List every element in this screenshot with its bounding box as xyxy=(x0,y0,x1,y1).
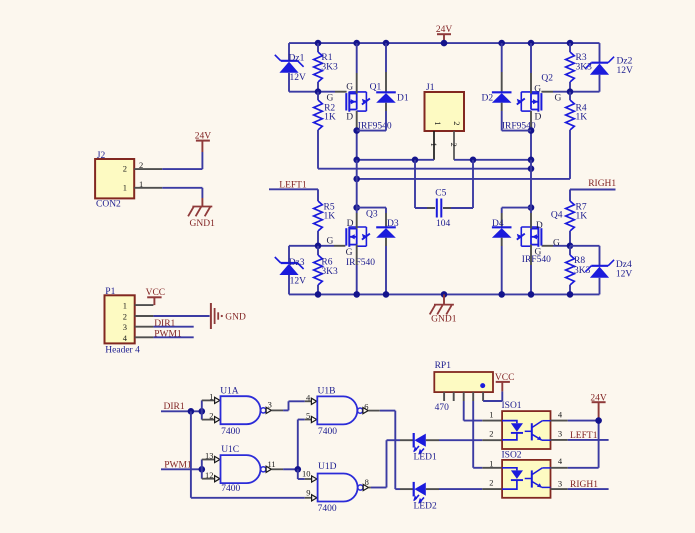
pin C5 right xyxy=(443,207,451,209)
svg-text:1K: 1K xyxy=(576,112,588,122)
svg-text:RP1: RP1 xyxy=(435,361,452,371)
label CON2 xyxy=(96,200,121,210)
wire R8 top xyxy=(569,246,571,255)
pin LED2 cathode xyxy=(400,488,414,490)
svg-text:D: D xyxy=(347,219,354,229)
label U1A xyxy=(220,387,239,397)
pin number ISO1-2 xyxy=(489,429,493,439)
wire +24V top rail xyxy=(289,42,600,44)
diode D3 xyxy=(376,227,396,237)
pin number U1A-1 xyxy=(209,391,213,401)
label R4 1K xyxy=(576,112,588,122)
svg-text:4: 4 xyxy=(558,409,563,419)
label Q2 G pin xyxy=(534,84,541,94)
pin Q3 drain xyxy=(356,213,358,229)
wire LED1 row left xyxy=(387,439,401,441)
pin number U1D-8 xyxy=(365,477,369,487)
pin P1-2 xyxy=(135,315,154,317)
label R2 1K xyxy=(324,112,336,122)
svg-text:1: 1 xyxy=(123,301,127,311)
svg-text:ISO2: ISO2 xyxy=(502,451,522,461)
label Q2 D pin xyxy=(535,112,542,122)
wire R2 top xyxy=(317,92,319,100)
wire C5 left drop xyxy=(415,160,435,208)
pin J2-1 xyxy=(134,187,162,189)
wire Dz1 bottom xyxy=(288,73,290,92)
pin Q2 source xyxy=(530,73,532,94)
label Q1 G net xyxy=(327,93,334,103)
svg-text:LED2: LED2 xyxy=(414,501,437,511)
wire D4 anode xyxy=(501,246,503,294)
resistor R2 xyxy=(314,100,323,130)
pin number U1B-5 xyxy=(306,410,310,420)
junction dot U1C inputs xyxy=(199,466,206,473)
svg-text:Q2: Q2 xyxy=(541,73,553,83)
power 24V (J2) xyxy=(195,132,212,153)
pin U1B-4 xyxy=(305,398,317,404)
junction dot row C left xyxy=(353,176,360,183)
wire R2 bottom to row B xyxy=(317,130,319,169)
pin RP1-3 xyxy=(463,392,465,401)
net label RIGH1 (bridge) xyxy=(588,179,616,189)
wire U1C out to U1B-5 xyxy=(298,420,305,470)
junction dot Q3 gate node xyxy=(315,243,322,250)
wire Dz1 top xyxy=(288,43,290,61)
wire U1C out node xyxy=(283,468,298,470)
svg-text:470: 470 xyxy=(435,403,450,413)
svg-text:5: 5 xyxy=(306,410,310,420)
label D2 xyxy=(482,93,494,103)
wire row A right (J1-2 to RIGHT node) xyxy=(454,159,531,161)
wire D2 top xyxy=(501,43,503,72)
svg-text:CON2: CON2 xyxy=(96,200,121,210)
junction dots row A xyxy=(353,157,534,164)
svg-text:Q1: Q1 xyxy=(370,82,382,92)
label D1 xyxy=(397,93,409,103)
pin D2 anode xyxy=(501,103,503,111)
pin D1 cathode xyxy=(385,72,387,92)
svg-text:3K3: 3K3 xyxy=(574,266,591,276)
power VCC (P1) xyxy=(146,288,166,305)
iso2 led xyxy=(502,468,523,489)
pin C5 left xyxy=(427,207,435,209)
label R6 3K3 xyxy=(321,267,338,277)
pin number ISO2-3 xyxy=(558,479,562,489)
pin J1-2 xyxy=(453,131,455,160)
junction dot Q4-D4 xyxy=(528,204,535,211)
pin U1C-12 xyxy=(202,476,220,482)
connector J2 box xyxy=(95,159,134,198)
zener Dz3 xyxy=(275,257,304,275)
wire R7 bottom xyxy=(569,231,571,246)
wire U1A input branch xyxy=(201,400,203,419)
iso2 transistor xyxy=(525,468,551,488)
svg-text:P1: P1 xyxy=(105,287,115,297)
wire C5 right drop xyxy=(443,160,473,208)
nand gate U1A xyxy=(221,396,266,424)
pin U1C-13 xyxy=(202,456,220,462)
svg-text:ISO1: ISO1 xyxy=(502,401,522,411)
zener Dz4 xyxy=(570,246,614,278)
label U1A 7400 xyxy=(221,427,240,437)
svg-text:GND1: GND1 xyxy=(431,315,457,325)
wire ISO2-3 RIGH1 xyxy=(568,488,609,490)
diode D1 xyxy=(376,92,396,102)
svg-text:12V: 12V xyxy=(290,73,307,83)
svg-text:J1: J1 xyxy=(426,83,435,93)
label Q2 G net xyxy=(555,93,562,103)
wire LED2 to ISO2-2 xyxy=(439,488,482,490)
pin ISO2-1 xyxy=(482,467,502,469)
wire Dz2 top xyxy=(599,43,601,63)
label U1D 7400 xyxy=(318,504,337,514)
pin J2-2 xyxy=(134,168,162,170)
pin U1D-9 xyxy=(305,495,317,501)
svg-text:3K3: 3K3 xyxy=(321,267,338,277)
pin number J1-2 outside xyxy=(449,143,459,147)
svg-text:9: 9 xyxy=(306,487,310,497)
svg-text:D1: D1 xyxy=(397,93,409,103)
wire LED1 to ISO1-2 xyxy=(439,439,482,441)
label R6 xyxy=(321,258,332,268)
junction dot U1A inputs xyxy=(199,408,206,415)
wire RP1-4 to ISO2-1 xyxy=(473,401,482,468)
wire R1 top xyxy=(317,43,319,52)
svg-text:2: 2 xyxy=(123,164,127,174)
net label RIGH1 (ISO2) xyxy=(570,480,598,490)
net label PWM1 (gates) xyxy=(164,460,192,470)
wire ISO2-4 to 24V xyxy=(568,421,599,468)
label R3 3K3 xyxy=(576,62,593,72)
wire DIR1 to U1D-9 xyxy=(191,411,305,498)
wire Q3 source bottom xyxy=(356,265,358,294)
wire P1-3 DIR1 xyxy=(153,326,193,328)
label R7 1K xyxy=(576,212,588,222)
svg-text:IRF540: IRF540 xyxy=(522,255,551,265)
wire Q1 gate node row xyxy=(289,91,347,93)
label RP1 470 xyxy=(435,403,450,413)
svg-text:G: G xyxy=(553,238,560,248)
junction dot Q3-D3 xyxy=(353,204,360,211)
zener Dz1 xyxy=(275,55,304,73)
svg-text:U1C: U1C xyxy=(221,445,239,455)
svg-text:3: 3 xyxy=(558,429,562,439)
wire row C (R4 to LEFT node) xyxy=(357,178,570,180)
pin number ISO2-4 xyxy=(558,456,563,466)
wire Q1 source top xyxy=(356,43,358,73)
label D3 xyxy=(387,219,399,229)
pin ISO1-2 xyxy=(482,439,502,441)
svg-text:1K: 1K xyxy=(576,212,588,222)
svg-text:J2: J2 xyxy=(97,151,106,161)
label P1 xyxy=(105,287,115,297)
pin number P1-4 xyxy=(123,333,128,343)
pin U1D-8 out xyxy=(363,484,371,490)
wire U1C input branch xyxy=(201,460,203,479)
svg-text:D2: D2 xyxy=(482,93,494,103)
resistor R5 xyxy=(314,201,323,231)
diode D4 xyxy=(492,227,512,237)
pin number J2-2 inside xyxy=(123,164,127,174)
label ISO2 xyxy=(502,451,522,461)
svg-text:U1D: U1D xyxy=(318,462,337,472)
pin number ISO1-4 xyxy=(558,409,563,419)
svg-text:1: 1 xyxy=(139,179,143,189)
label Q4 G pin xyxy=(535,248,542,258)
wire RP1-3 to ISO1-1 xyxy=(464,401,483,421)
label Dz4 12V xyxy=(616,269,633,279)
wire R6 top xyxy=(317,246,319,255)
wire LED2 row left xyxy=(395,488,400,490)
wire RIGH1 xyxy=(570,190,616,202)
wire Dz4 top xyxy=(599,246,601,266)
pin ISO2-2 xyxy=(482,488,502,490)
label R1 xyxy=(321,53,332,63)
pin ISO2-3 xyxy=(551,488,568,490)
wire Q1 drain down xyxy=(356,128,358,160)
svg-text:G: G xyxy=(327,93,334,103)
wire Dz4 bottom xyxy=(599,278,601,295)
wire J2-1 to GND1 xyxy=(162,188,202,198)
label C5 xyxy=(435,188,446,198)
svg-text:D3: D3 xyxy=(387,219,399,229)
label Dz1 xyxy=(289,54,305,64)
label C5 104 xyxy=(436,219,451,229)
pin P1-1 xyxy=(135,304,154,306)
wire PWM1 xyxy=(161,468,202,470)
resistor R6 xyxy=(314,255,323,285)
svg-text:2: 2 xyxy=(449,143,459,147)
svg-text:12V: 12V xyxy=(616,269,633,279)
pin RP1-2 xyxy=(453,392,455,401)
ground GND1 (bridge) xyxy=(430,294,457,324)
wire R5 bottom xyxy=(317,231,319,246)
pin U1D-10 xyxy=(305,476,317,482)
label LED1 xyxy=(414,453,437,463)
pin number U1D-9 xyxy=(306,487,310,497)
label Q2 IRF9540 xyxy=(502,121,536,131)
label RP1 xyxy=(435,361,452,371)
pin D4 cathode xyxy=(501,213,503,227)
ground GND (P1) xyxy=(211,303,246,329)
label Header 4 xyxy=(105,346,140,356)
pin Q4 drain xyxy=(530,213,532,229)
nand gate U1C xyxy=(221,455,266,483)
svg-text:1: 1 xyxy=(433,121,443,125)
pin number U1A-3 xyxy=(268,400,272,410)
pin number P1-2 xyxy=(123,311,127,321)
transistor Q4 xyxy=(517,227,542,247)
capacitor C5 xyxy=(437,199,442,218)
svg-text:1: 1 xyxy=(123,182,127,192)
svg-text:3: 3 xyxy=(268,400,272,410)
svg-text:DIR1: DIR1 xyxy=(154,319,175,329)
label Dz4 xyxy=(616,260,632,270)
wire ISO1-3 LEFT1 xyxy=(568,439,609,441)
label R3 xyxy=(576,53,587,63)
resistor R1 xyxy=(314,52,323,82)
wire J2-2 to 24V xyxy=(162,152,202,169)
label Q3 xyxy=(366,209,378,219)
wire U1D out to LED1 xyxy=(371,440,387,487)
svg-text:2: 2 xyxy=(489,478,493,488)
junction dot U1C out xyxy=(295,466,302,473)
wire row A left (LEFT node to J1-1) xyxy=(357,159,434,161)
resistor R3 xyxy=(566,52,575,82)
connector J1 box xyxy=(425,92,465,131)
wire P1-4 PWM1 xyxy=(153,336,193,338)
pin U1B-6 out xyxy=(363,408,380,414)
resistor R8 xyxy=(566,255,575,285)
optocoupler ISO2 box xyxy=(502,460,550,498)
wire D3 jog xyxy=(357,208,386,213)
svg-text:10: 10 xyxy=(302,469,311,479)
label Dz2 12V xyxy=(617,66,634,76)
label Q3 G net xyxy=(327,237,334,247)
label Q1 IRF9540 xyxy=(358,121,392,131)
nand gate U1B xyxy=(317,396,362,424)
wire Q4 source bottom xyxy=(530,265,532,294)
net label DIR1 (P1) xyxy=(154,319,175,329)
power 24V (top) xyxy=(436,25,453,43)
label Q1 D pin xyxy=(346,112,353,122)
label R5 1K xyxy=(324,212,336,222)
resistor R7 xyxy=(566,201,575,231)
wire DIR1 xyxy=(161,410,202,412)
svg-text:1K: 1K xyxy=(324,112,336,122)
led LED1 xyxy=(413,433,426,455)
svg-text:2: 2 xyxy=(123,311,127,321)
wire D3 anode xyxy=(385,246,387,294)
wire R4 top xyxy=(569,92,571,100)
label D4 xyxy=(492,219,504,229)
pin number P1-1 xyxy=(123,301,127,311)
svg-text:2: 2 xyxy=(139,160,143,170)
wire Q4 drain top xyxy=(530,160,532,213)
label LED2 xyxy=(414,501,437,511)
label R1 3K3 xyxy=(321,62,338,72)
power 24V (ISO) xyxy=(590,393,607,420)
svg-text:13: 13 xyxy=(205,450,214,460)
svg-text:IRF540: IRF540 xyxy=(346,258,375,268)
svg-text:3: 3 xyxy=(123,322,127,332)
label Q1 G pin xyxy=(346,82,353,92)
pin ISO1-4 xyxy=(551,420,568,422)
resistor pack RP1 box xyxy=(434,372,493,392)
label R5 xyxy=(324,203,335,213)
wire Dz3 top xyxy=(288,246,290,263)
svg-text:GND: GND xyxy=(225,313,246,323)
junction dot row B right xyxy=(528,165,535,172)
wire Q2 source top xyxy=(530,43,532,73)
label U1C xyxy=(221,445,239,455)
diode D2 xyxy=(492,92,512,102)
wire ISO1-4 to 24V xyxy=(568,420,599,422)
zener Dz2 xyxy=(585,57,614,75)
pin number U1B-4 xyxy=(306,392,311,402)
svg-text:1: 1 xyxy=(209,391,213,401)
svg-text:Dz3: Dz3 xyxy=(289,258,305,268)
connector P1 box xyxy=(105,295,135,343)
led LED2 xyxy=(413,482,426,504)
pin U1A-1 xyxy=(202,397,220,403)
svg-text:11: 11 xyxy=(268,459,276,469)
iso1 transistor xyxy=(525,421,551,441)
pin number U1B-6 xyxy=(364,402,368,412)
wire U1A out to U1B-4 xyxy=(283,401,305,410)
label Q4 IRF540 xyxy=(522,255,551,265)
transistor Q1 xyxy=(346,92,370,112)
pin number P1-3 xyxy=(123,322,127,332)
pin number ISO2-1 xyxy=(489,459,493,469)
svg-text:G: G xyxy=(346,82,353,92)
svg-text:7400: 7400 xyxy=(221,484,240,494)
svg-text:12: 12 xyxy=(205,470,214,480)
junction dot Q1-D1 xyxy=(353,127,360,134)
resistor R4 xyxy=(566,100,575,130)
label Q4 xyxy=(551,211,563,221)
wire Q2 drain down xyxy=(530,128,532,160)
power VCC (RP1) xyxy=(495,373,515,391)
pin P1-4 xyxy=(135,336,154,338)
label Q3 IRF540 xyxy=(346,258,375,268)
pin P1-3 xyxy=(135,326,154,328)
wire LEFT1 xyxy=(269,189,318,201)
svg-text:4: 4 xyxy=(558,456,563,466)
svg-text:Dz4: Dz4 xyxy=(616,260,632,270)
wire GND rail bottom xyxy=(289,293,600,295)
pin number ISO2-2 xyxy=(489,478,493,488)
svg-text:1: 1 xyxy=(489,409,493,419)
pin Q1 source xyxy=(356,73,358,94)
optocoupler ISO1 box xyxy=(502,411,550,449)
svg-text:R8: R8 xyxy=(574,256,585,266)
svg-text:7400: 7400 xyxy=(221,427,240,437)
junction dot Q2 gate node xyxy=(567,88,574,95)
wire U1C out to U1D-10 xyxy=(298,469,305,479)
label U1B xyxy=(318,387,336,397)
pin U1A-2 xyxy=(202,417,220,423)
label Q3 D pin xyxy=(347,219,354,229)
pin number U1C-12 xyxy=(205,470,214,480)
net label DIR1 (gates) xyxy=(164,402,185,412)
svg-text:G: G xyxy=(327,237,334,247)
svg-text:Header 4: Header 4 xyxy=(105,346,140,356)
wire D1 anode jog xyxy=(357,111,386,131)
junction dot Q4 gate node xyxy=(567,243,574,250)
label ISO1 xyxy=(502,401,522,411)
svg-text:7400: 7400 xyxy=(318,427,337,437)
transistor Q3 xyxy=(346,227,370,247)
transistor Q2 xyxy=(517,92,542,112)
svg-text:D: D xyxy=(346,112,353,122)
label Q3 G pin xyxy=(346,248,353,258)
pin Q1 drain xyxy=(356,111,358,128)
pin U1A-3 out xyxy=(266,407,283,413)
svg-text:2: 2 xyxy=(209,411,213,421)
wire R3 bottom xyxy=(569,82,571,92)
pin Q3 source xyxy=(356,245,358,265)
svg-text:104: 104 xyxy=(436,219,451,229)
label R7 xyxy=(576,203,587,213)
ground GND1 (J2) xyxy=(188,198,215,229)
junction dot Q1 gate node xyxy=(315,88,322,95)
junction dot DIR1 branch xyxy=(188,408,195,415)
wire RP1-5 to VCC xyxy=(483,391,502,401)
pin number J2-1 inside xyxy=(123,182,127,192)
pin number J2-2 outside xyxy=(139,160,143,170)
svg-text:1K: 1K xyxy=(324,212,336,222)
